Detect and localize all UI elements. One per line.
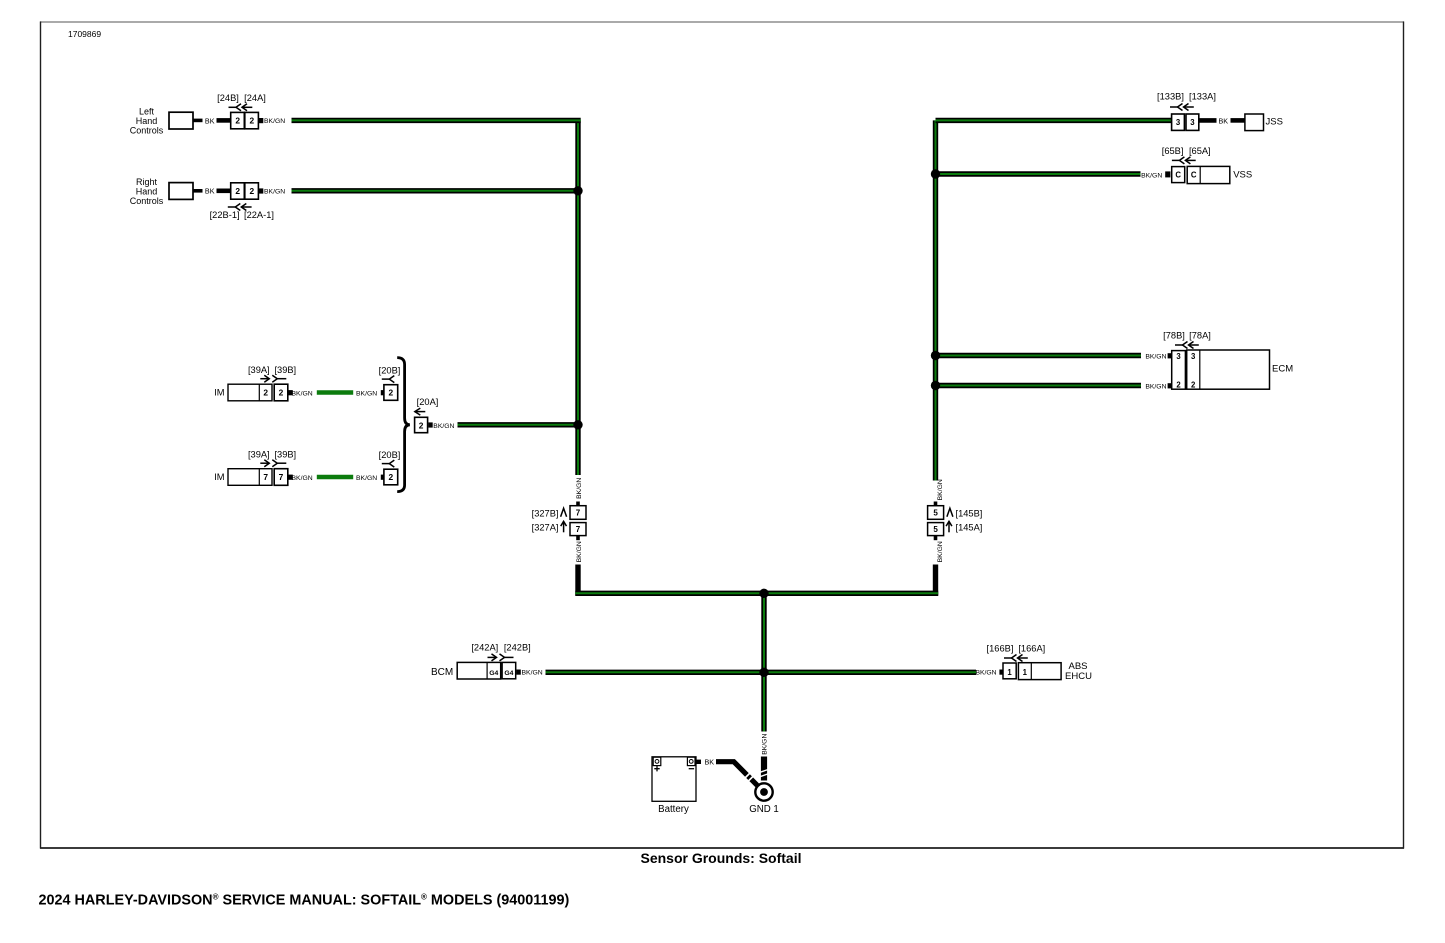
svg-text:BK/GN: BK/GN — [1141, 172, 1162, 179]
svg-text:C: C — [1175, 171, 1181, 180]
svg-text:Controls: Controls — [130, 125, 164, 135]
svg-text:Right: Right — [136, 177, 158, 187]
svg-text:BK/GN: BK/GN — [356, 475, 377, 482]
svg-text:JSS: JSS — [1266, 116, 1283, 127]
svg-text:IM: IM — [214, 472, 224, 482]
svg-text:BK/GN: BK/GN — [576, 478, 583, 499]
svg-text:7: 7 — [576, 525, 581, 534]
svg-text:BK/GN: BK/GN — [292, 475, 313, 482]
svg-text:2: 2 — [249, 186, 254, 196]
svg-text:BK/GN: BK/GN — [937, 541, 944, 562]
svg-text:BK: BK — [205, 187, 215, 196]
svg-text:[327B]: [327B] — [532, 508, 559, 518]
svg-text:BK/GN: BK/GN — [292, 390, 313, 397]
svg-text:BK/GN: BK/GN — [1145, 354, 1166, 361]
svg-text:[39A]: [39A] — [248, 450, 270, 460]
svg-text:IM: IM — [214, 388, 224, 398]
svg-text:7: 7 — [263, 472, 268, 482]
svg-text:3: 3 — [1176, 118, 1181, 127]
svg-text:[24A]: [24A] — [244, 93, 266, 103]
svg-text:C: C — [1191, 171, 1197, 180]
svg-text:ECM: ECM — [1272, 364, 1293, 375]
svg-text:BK/GN: BK/GN — [356, 390, 377, 397]
svg-text:BK/GN: BK/GN — [522, 670, 543, 677]
svg-text:2: 2 — [1176, 381, 1181, 390]
svg-text:[20A]: [20A] — [417, 397, 439, 407]
svg-text:Sensor Grounds: Softail: Sensor Grounds: Softail — [640, 850, 801, 866]
svg-text:2: 2 — [235, 186, 240, 196]
svg-text:1: 1 — [1007, 668, 1012, 677]
svg-text:EHCU: EHCU — [1065, 671, 1092, 682]
svg-text:[145A]: [145A] — [956, 523, 983, 533]
svg-text:[65A]: [65A] — [1189, 146, 1211, 156]
svg-text:1: 1 — [1023, 668, 1028, 677]
svg-text:2: 2 — [279, 388, 284, 398]
svg-text:BK/GN: BK/GN — [264, 118, 285, 125]
svg-text:[39B]: [39B] — [274, 365, 296, 375]
svg-text:BK/GN: BK/GN — [1145, 384, 1166, 391]
svg-text:Battery: Battery — [658, 804, 689, 815]
svg-text:[78B]: [78B] — [1163, 330, 1185, 340]
svg-text:BK/GN: BK/GN — [937, 479, 944, 500]
svg-text:G4: G4 — [489, 670, 498, 677]
svg-text:VSS: VSS — [1233, 170, 1252, 181]
svg-text:[327A]: [327A] — [532, 523, 559, 533]
svg-text:2024 HARLEY-DAVIDSON® SERVICE: 2024 HARLEY-DAVIDSON® SERVICE MANUAL: SO… — [39, 892, 570, 908]
svg-text:2: 2 — [388, 472, 393, 482]
svg-text:[20B]: [20B] — [379, 365, 401, 375]
svg-text:5: 5 — [933, 509, 938, 518]
svg-text:[242B]: [242B] — [504, 643, 531, 653]
svg-text:[133B]: [133B] — [1157, 92, 1184, 102]
svg-text:[20B]: [20B] — [379, 450, 401, 460]
svg-text:3: 3 — [1191, 352, 1196, 361]
svg-text:[166B]: [166B] — [987, 643, 1014, 653]
svg-text:2: 2 — [235, 116, 240, 126]
svg-text:1709869: 1709869 — [68, 29, 101, 39]
svg-text:[133A]: [133A] — [1189, 92, 1216, 102]
svg-text:BK/GN: BK/GN — [264, 189, 285, 196]
svg-text:Controls: Controls — [130, 196, 164, 206]
svg-text:BK/GN: BK/GN — [433, 423, 454, 430]
svg-text:3: 3 — [1176, 352, 1181, 361]
svg-text:[22A-1]: [22A-1] — [244, 210, 274, 220]
svg-text:BK: BK — [1219, 117, 1229, 126]
svg-text:BK: BK — [205, 116, 215, 125]
svg-text:[166A]: [166A] — [1018, 643, 1045, 653]
svg-text:[24B]: [24B] — [217, 93, 239, 103]
svg-text:BCM: BCM — [431, 667, 453, 678]
svg-text:2: 2 — [1191, 381, 1196, 390]
svg-text:7: 7 — [576, 509, 581, 518]
svg-text:Hand: Hand — [136, 116, 158, 126]
svg-text:7: 7 — [279, 472, 284, 482]
svg-text:2: 2 — [263, 388, 268, 398]
svg-text:Hand: Hand — [136, 186, 158, 196]
svg-text:2: 2 — [388, 388, 393, 398]
svg-text:[22B-1]: [22B-1] — [210, 210, 240, 220]
svg-text:BK/GN: BK/GN — [576, 541, 583, 562]
svg-text:Left: Left — [139, 106, 155, 116]
svg-text:5: 5 — [933, 525, 938, 534]
svg-text:BK: BK — [705, 758, 715, 767]
svg-text:[145B]: [145B] — [956, 508, 983, 518]
svg-text:GND 1: GND 1 — [749, 804, 779, 815]
svg-text:2: 2 — [419, 420, 424, 430]
svg-text:3: 3 — [1190, 118, 1195, 127]
svg-text:BK/GN: BK/GN — [762, 734, 769, 755]
svg-text:[65B]: [65B] — [1162, 146, 1184, 156]
svg-text:[78A]: [78A] — [1189, 330, 1211, 340]
svg-text:[39B]: [39B] — [274, 450, 296, 460]
svg-text:[39A]: [39A] — [248, 365, 270, 375]
svg-text:[242A]: [242A] — [471, 643, 498, 653]
svg-text:G4: G4 — [504, 670, 513, 677]
svg-text:2: 2 — [249, 116, 254, 126]
svg-text:BK/GN: BK/GN — [975, 670, 996, 677]
